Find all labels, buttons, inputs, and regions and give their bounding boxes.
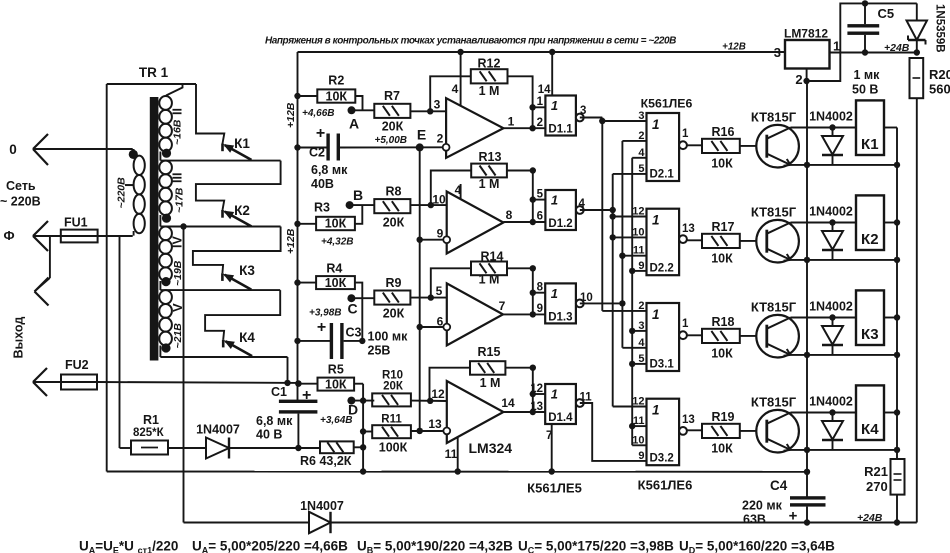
svg-text:R2: R2 (328, 74, 344, 88)
svg-text:6,8 мк: 6,8 мк (311, 163, 348, 177)
svg-text:6: 6 (537, 211, 543, 223)
svg-text:TR 1: TR 1 (139, 65, 169, 80)
svg-text:10К: 10К (711, 442, 733, 456)
svg-text:III: III (171, 173, 185, 183)
svg-text:2: 2 (638, 130, 644, 142)
svg-text:R20: R20 (929, 67, 950, 82)
svg-text:R1: R1 (143, 413, 159, 427)
svg-text:+5,00В: +5,00В (375, 135, 408, 146)
svg-text:11: 11 (580, 392, 593, 404)
svg-text:10К: 10К (325, 217, 347, 231)
svg-text:6: 6 (437, 315, 444, 329)
svg-text:63В: 63В (743, 513, 766, 527)
svg-text:R11: R11 (381, 414, 402, 426)
svg-text:10К: 10К (711, 347, 733, 361)
svg-text:13: 13 (530, 401, 543, 413)
svg-text:К4: К4 (861, 421, 879, 438)
svg-text:К561ЛЕ6: К561ЛЕ6 (638, 478, 693, 493)
svg-text:1N4002: 1N4002 (809, 205, 853, 219)
svg-text:4: 4 (638, 337, 645, 349)
svg-text:560: 560 (929, 82, 950, 97)
svg-text:+4,32В: +4,32В (321, 237, 354, 248)
svg-text:9: 9 (437, 227, 444, 241)
svg-text:9: 9 (537, 303, 543, 315)
svg-text:5: 5 (638, 353, 644, 365)
svg-text:20К: 20К (383, 216, 405, 230)
svg-text:Ф: Ф (3, 228, 14, 243)
svg-text:20К: 20К (383, 381, 404, 393)
svg-text:1: 1 (652, 307, 660, 322)
svg-text:4: 4 (455, 183, 462, 197)
svg-text:10: 10 (580, 292, 593, 304)
svg-text:2: 2 (537, 117, 543, 129)
svg-text:UD​= 5,00*160/220 =3,64В: UD​= 5,00*160/220 =3,64В (679, 539, 835, 553)
svg-text:Выход: Выход (12, 317, 26, 359)
svg-text:6,8 мк: 6,8 мк (256, 414, 293, 428)
svg-text:3: 3 (638, 320, 644, 332)
svg-text:10К: 10К (711, 252, 733, 266)
svg-text:1 М: 1 М (479, 177, 500, 191)
svg-text:D3.1: D3.1 (650, 359, 675, 371)
svg-text:14: 14 (538, 84, 551, 96)
svg-text:Е: Е (417, 127, 426, 143)
svg-text:10: 10 (632, 226, 644, 238)
svg-text:1N4002: 1N4002 (809, 300, 853, 314)
svg-text:1 мк: 1 мк (854, 68, 881, 82)
svg-text:R18: R18 (712, 315, 735, 329)
svg-text:UС​= 5,00*175/220 =3,98В: UС​= 5,00*175/220 =3,98В (518, 539, 674, 553)
svg-text:+24В: +24В (857, 512, 883, 524)
svg-text:11: 11 (633, 245, 645, 257)
svg-text:12: 12 (431, 387, 445, 401)
svg-text:+3,98В: +3,98В (309, 308, 342, 319)
svg-text:А: А (349, 116, 359, 132)
svg-text:LM7812: LM7812 (784, 27, 828, 41)
svg-text:R6 43,2К: R6 43,2К (300, 454, 352, 468)
svg-text:12: 12 (632, 396, 644, 408)
svg-text:~16В: ~16В (172, 119, 184, 145)
svg-text:+: + (302, 387, 311, 404)
svg-text:5: 5 (638, 163, 644, 175)
svg-text:13: 13 (682, 414, 695, 426)
svg-text:1: 1 (682, 128, 689, 140)
svg-text:КТ815Г: КТ815Г (751, 300, 797, 315)
svg-text:+24В: +24В (884, 42, 910, 54)
svg-text:С: С (347, 301, 357, 317)
svg-text:4: 4 (452, 82, 459, 96)
svg-text:1N4007: 1N4007 (300, 499, 344, 513)
svg-text:~220В: ~220В (116, 177, 128, 209)
svg-text:40 В: 40 В (256, 428, 282, 442)
svg-text:FU2: FU2 (65, 358, 89, 372)
svg-text:1N4007: 1N4007 (196, 423, 240, 437)
svg-text:9: 9 (638, 450, 644, 462)
svg-text:1: 1 (551, 193, 558, 208)
svg-text:2: 2 (638, 300, 644, 312)
svg-text:100К: 100К (379, 441, 408, 455)
svg-text:10К: 10К (325, 377, 347, 391)
svg-text:К4: К4 (239, 330, 255, 345)
svg-text:FU1: FU1 (64, 216, 88, 230)
svg-text:UА​= 5,00*205/220 =4,66В: UА​= 5,00*205/220 =4,66В (192, 539, 348, 553)
svg-text:1N5359B: 1N5359B (934, 4, 946, 53)
svg-text:+4,66В: +4,66В (302, 108, 335, 119)
svg-text:14: 14 (501, 396, 515, 410)
svg-text:К1: К1 (861, 136, 879, 153)
svg-text:К3: К3 (861, 326, 879, 343)
svg-text:1 М: 1 М (479, 273, 500, 287)
svg-text:13: 13 (428, 417, 442, 431)
svg-text:13: 13 (682, 223, 695, 235)
svg-text:UВ​= 5,00*190/220 =4,32В: UВ​= 5,00*190/220 =4,32В (357, 539, 513, 553)
svg-text:~21В: ~21В (172, 323, 184, 349)
svg-text:D: D (348, 402, 358, 418)
svg-text:+: + (317, 319, 326, 336)
svg-text:2: 2 (795, 72, 802, 87)
svg-text:+: + (316, 125, 325, 142)
svg-text:D1.2: D1.2 (548, 218, 572, 230)
svg-text:1: 1 (551, 98, 558, 113)
svg-text:3: 3 (774, 45, 781, 60)
svg-text:~19В: ~19В (172, 260, 184, 286)
svg-text:2: 2 (437, 132, 444, 146)
svg-text:4: 4 (638, 147, 645, 159)
svg-text:К1: К1 (234, 136, 250, 151)
svg-text:10: 10 (432, 193, 446, 207)
svg-text:С2: С2 (309, 146, 325, 160)
svg-text:20К: 20К (383, 307, 405, 321)
svg-text:К2: К2 (861, 231, 879, 248)
svg-text:1: 1 (652, 403, 660, 418)
svg-text:~17В: ~17В (174, 187, 186, 213)
svg-text:270: 270 (866, 479, 888, 494)
svg-text:8: 8 (506, 208, 513, 222)
svg-text:1: 1 (682, 318, 689, 330)
svg-text:К2: К2 (234, 203, 250, 218)
svg-text:10К: 10К (711, 157, 733, 171)
svg-text:220 мк: 220 мк (742, 499, 783, 513)
svg-text:R16: R16 (712, 125, 735, 139)
svg-text:С4: С4 (770, 478, 788, 493)
svg-text:100 мк: 100 мк (368, 330, 409, 344)
svg-text:R5: R5 (328, 363, 344, 377)
svg-text:3: 3 (580, 105, 586, 117)
svg-text:3: 3 (638, 110, 644, 122)
svg-text:IV: IV (171, 236, 185, 248)
svg-text:R7: R7 (384, 89, 400, 103)
svg-text:D3.2: D3.2 (650, 453, 674, 465)
svg-text:1N4002: 1N4002 (809, 110, 853, 124)
svg-text:1: 1 (652, 213, 660, 228)
svg-text:R8: R8 (386, 185, 402, 199)
svg-text:D1.1: D1.1 (548, 124, 573, 136)
svg-text:КТ815Г: КТ815Г (751, 205, 797, 220)
svg-text:10: 10 (632, 434, 644, 446)
svg-text:11: 11 (445, 447, 458, 461)
svg-text:3: 3 (434, 98, 441, 112)
svg-text:+: + (789, 508, 798, 525)
svg-text:825*К: 825*К (133, 427, 165, 439)
svg-text:20К: 20К (382, 120, 404, 134)
svg-text:0: 0 (9, 142, 17, 157)
svg-text:D2.2: D2.2 (650, 263, 674, 275)
svg-text:R15: R15 (478, 345, 501, 359)
svg-text:1: 1 (551, 387, 558, 402)
svg-text:R17: R17 (712, 220, 735, 234)
svg-text:11: 11 (633, 415, 645, 427)
svg-text:8: 8 (537, 282, 544, 294)
svg-text:4: 4 (579, 198, 586, 210)
svg-text:LM324: LM324 (469, 440, 513, 456)
svg-text:1N4002: 1N4002 (809, 395, 853, 409)
svg-text:Сеть: Сеть (6, 179, 36, 193)
svg-text:R3: R3 (314, 201, 330, 215)
svg-text:1 М: 1 М (479, 84, 500, 98)
svg-text:1: 1 (551, 286, 558, 301)
svg-text:10К: 10К (325, 276, 347, 290)
svg-text:12: 12 (632, 206, 644, 218)
svg-text:D1.4: D1.4 (548, 412, 573, 424)
svg-text:12: 12 (530, 383, 543, 395)
svg-text:10К: 10К (326, 89, 348, 103)
svg-text:Напряжения в контрольных точка: Напряжения в контрольных точках устанавл… (265, 36, 676, 47)
svg-text:1: 1 (537, 96, 544, 108)
svg-text:КТ815Г: КТ815Г (751, 395, 797, 410)
svg-text:В: В (353, 187, 363, 203)
svg-text:II: II (171, 108, 185, 115)
svg-text:С1: С1 (271, 385, 287, 399)
svg-text:50 В: 50 В (852, 83, 878, 97)
svg-text:R13: R13 (479, 150, 502, 164)
svg-text:+12В: +12В (285, 102, 297, 128)
svg-text:КТ815Г: КТ815Г (751, 110, 797, 125)
svg-text:R9: R9 (386, 276, 402, 290)
svg-text:5: 5 (436, 284, 443, 298)
svg-text:9: 9 (638, 260, 644, 272)
svg-text:С5: С5 (878, 6, 895, 21)
svg-text:D2.1: D2.1 (650, 169, 675, 181)
svg-text:1: 1 (508, 115, 515, 129)
svg-text:7: 7 (499, 299, 506, 313)
svg-text:~ 220В: ~ 220В (0, 195, 41, 209)
svg-text:25В: 25В (368, 344, 391, 358)
svg-text:К561ЛЕ6: К561ЛЕ6 (641, 97, 693, 111)
svg-text:D1.3: D1.3 (548, 311, 572, 323)
svg-text:5: 5 (537, 189, 544, 201)
svg-text:К561ЛЕ5: К561ЛЕ5 (527, 481, 582, 496)
svg-text:1 М: 1 М (480, 376, 501, 390)
svg-text:К3: К3 (239, 263, 255, 278)
svg-text:R21: R21 (864, 464, 888, 479)
svg-text:R19: R19 (712, 410, 735, 424)
svg-text:1: 1 (833, 39, 840, 54)
svg-text:R4: R4 (326, 262, 342, 276)
svg-text:1: 1 (652, 117, 660, 132)
svg-text:+12В: +12В (722, 42, 746, 53)
svg-text:С3: С3 (346, 326, 362, 340)
svg-text:+12В: +12В (285, 228, 297, 254)
svg-text:40В: 40В (311, 177, 334, 191)
